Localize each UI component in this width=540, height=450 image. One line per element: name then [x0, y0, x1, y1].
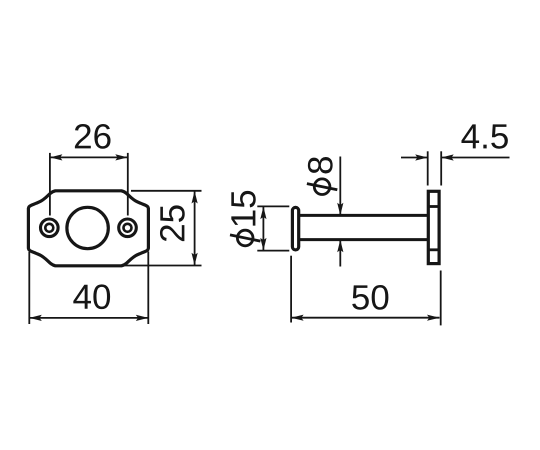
shaft top line [300, 214, 427, 217]
screw hole right inner [124, 224, 132, 232]
dim 50 dimension line [291, 317, 439, 319]
dim phi8 label [307, 157, 337, 194]
dim phi15 label [230, 191, 260, 246]
dim 25 extension line bottom [124, 265, 202, 267]
dim 25 label [160, 205, 185, 241]
screw hole right outer [119, 219, 137, 237]
dim phi8 dimension line upper [339, 157, 341, 215]
plate outline (front view) [28, 191, 148, 266]
dim 4.5 extension line right [440, 151, 442, 185]
dim 25 extension line top [131, 190, 202, 192]
dim phi15 dimension line [262, 207, 264, 251]
dim 50 extension line left [290, 256, 292, 323]
screw hole left inner [45, 224, 53, 232]
dim 40 extension line left [28, 252, 30, 324]
shaft bottom line [300, 238, 427, 241]
dim 4.5 leader left [401, 157, 427, 159]
dim 4.5 label [461, 124, 479, 148]
dim phi15 extension line top [257, 205, 289, 207]
dim 26 label [75, 124, 91, 148]
dim phi8 dimension line lower [339, 240, 341, 266]
dim 40 dimension line [29, 317, 148, 319]
wall plate (side view) [428, 191, 439, 263]
dim 4.5 extension line left [427, 151, 429, 185]
wall plate chamfer line bottom [428, 248, 439, 251]
dim 40 extension line right [147, 252, 149, 325]
dim 26 extension line left [49, 153, 51, 216]
dim phi15 extension line bottom [257, 250, 289, 252]
dim 4.5 leader right [442, 157, 510, 159]
dim 40 label [73, 285, 91, 309]
screw hole left outer [41, 219, 59, 237]
dim 25 dimension line [194, 191, 196, 265]
dim 26 extension line right [127, 153, 129, 216]
dim 50 extension line right [440, 271, 442, 326]
dim 26 dimension line [50, 156, 128, 158]
wall plate chamfer line top [428, 205, 439, 208]
hook head (side view) [292, 207, 298, 250]
center hole (front view) [67, 207, 108, 248]
dim 50 label [352, 285, 369, 309]
